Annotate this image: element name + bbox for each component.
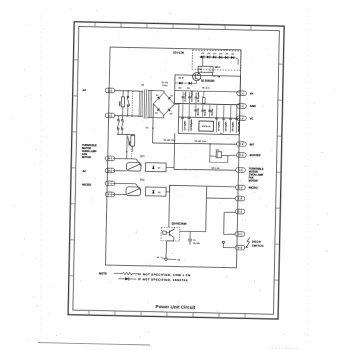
svg-text:10µ/35v: 10µ/35v — [193, 243, 201, 245]
svg-text:C3 6.3µ/50v: C3 6.3µ/50v — [225, 121, 227, 131]
svg-text:LD2: LD2 — [207, 53, 210, 55]
svg-text:MOTOR: MOTOR — [82, 156, 91, 159]
svg-text:Power Unit Circuit: Power Unit Circuit — [155, 304, 195, 310]
svg-text:C5 470p: C5 470p — [211, 108, 214, 116]
svg-text:NOTE: NOTE — [99, 272, 107, 276]
svg-text:MICRO: MICRO — [249, 186, 258, 190]
svg-text:C4 1000µ/16v: C4 1000µ/16v — [190, 90, 193, 101]
svg-text:R5 680 1/2w: R5 680 1/2w — [195, 141, 207, 143]
svg-text:R1 4.7k: R1 4.7k — [204, 109, 207, 115]
svg-text:Q3 KRC243M: Q3 KRC243M — [172, 223, 187, 226]
svg-text:C2 0.1µ/50v: C2 0.1µ/50v — [198, 92, 200, 102]
svg-text:C4 1000µ/16v: C4 1000µ/16v — [190, 119, 193, 130]
svg-text:C2 0.1µ/50v: C2 0.1µ/50v — [218, 121, 220, 131]
svg-text:R6 4.7k: R6 4.7k — [202, 87, 210, 90]
svg-text:SWITCH: SWITCH — [252, 244, 264, 248]
svg-text:GND: GND — [250, 104, 256, 108]
svg-text:R2 680 1/2w: R2 680 1/2w — [164, 140, 176, 142]
svg-text:LD1: LD1 — [201, 53, 204, 55]
svg-text:BUZZER: BUZZER — [250, 153, 261, 157]
svg-text:C1 0.1µ/50v: C1 0.1µ/50v — [184, 121, 186, 131]
svg-text:ZD1 5.6v: ZD1 5.6v — [198, 108, 200, 115]
svg-text:WH-1: WH-1 — [215, 67, 221, 69]
svg-text:DOOR: DOOR — [252, 239, 261, 243]
svg-text:VA: VA — [250, 92, 254, 96]
svg-text:C4 1.5µ/50v: C4 1.5µ/50v — [231, 122, 234, 132]
svg-text:AC: AC — [82, 88, 86, 92]
svg-text:VRS1: VRS1 — [119, 100, 121, 106]
svg-text:MOTOR: MOTOR — [249, 180, 258, 183]
svg-text:R5(1/2) 10w: R5(1/2) 10w — [238, 121, 240, 132]
svg-text:Q2 2SB1238: Q2 2SB1238 — [201, 80, 215, 82]
svg-text:LD3: LD3 — [213, 53, 216, 55]
svg-text:LD5: LD5 — [225, 54, 228, 56]
svg-text:AC: AC — [82, 169, 86, 173]
svg-text:INT: INT — [250, 142, 255, 146]
svg-text:LD6: LD6 — [231, 54, 234, 56]
svg-text:R4 27: R4 27 — [179, 77, 185, 80]
svg-text:RY1: RY1 — [140, 156, 145, 158]
svg-text:UM78L08: UM78L08 — [202, 126, 212, 128]
svg-text:VC: VC — [250, 117, 254, 121]
svg-text:C1 0.1µ/50v: C1 0.1µ/50v — [185, 92, 187, 102]
svg-text:LD1~LD6: LD1~LD6 — [173, 51, 185, 54]
svg-text:11ES1: 11ES1 — [162, 85, 169, 87]
svg-text:VA: VA — [177, 259, 180, 262]
svg-text:MICRO: MICRO — [82, 183, 91, 187]
svg-text:RY2: RY2 — [140, 180, 145, 182]
svg-text:R8 3.3k: R8 3.3k — [212, 168, 220, 170]
svg-text:D1~D4: D1~D4 — [162, 81, 169, 84]
